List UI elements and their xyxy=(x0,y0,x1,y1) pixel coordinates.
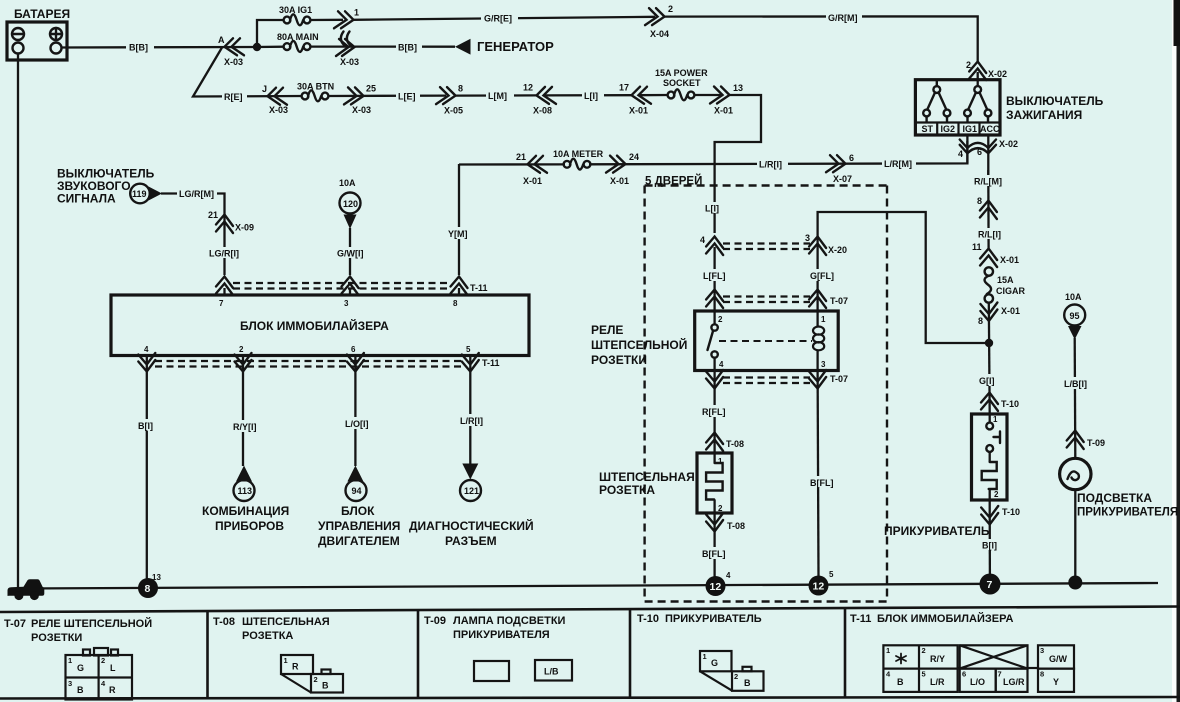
svg-text:ПРИБОРОВ: ПРИБОРОВ xyxy=(215,519,284,533)
label Y[M] xyxy=(446,227,474,239)
svg-text:8: 8 xyxy=(145,583,151,595)
wire junction to fuse MAIN xyxy=(257,46,284,49)
svg-text:15A POWER: 15A POWER xyxy=(655,68,708,78)
svg-text:X-01: X-01 xyxy=(523,176,542,186)
generator ГЕНЕРАТОР arrow xyxy=(455,39,554,55)
fuse node 10A / 120 xyxy=(339,178,361,229)
cigarette lighter ПРИКУРИВАТЕЛЬ xyxy=(884,414,1007,538)
connector T-07 top chevron left xyxy=(706,290,723,309)
label R/L[I] xyxy=(976,228,1006,240)
svg-text:7: 7 xyxy=(987,579,993,591)
ignition switch ВЫКЛЮЧАТЕЛЬ ЗАЖИГАНИЯ xyxy=(915,80,1103,135)
svg-text:T-09: T-09 xyxy=(424,615,446,627)
svg-text:B[I]: B[I] xyxy=(138,421,153,431)
svg-text:L[I]: L[I] xyxy=(584,91,598,101)
junction dashed pair T-07 top xyxy=(723,296,848,306)
wire L/B[I] lamp feed xyxy=(1074,338,1077,458)
svg-text:ЛАМПА ПОДСВЕТКИ: ЛАМПА ПОДСВЕТКИ xyxy=(453,615,566,627)
svg-text:БЛОК ИММОБИЛАЙЗЕРА: БЛОК ИММОБИЛАЙЗЕРА xyxy=(240,318,389,333)
fuse 30A IG1 xyxy=(279,5,312,25)
label L[I] xyxy=(582,90,604,102)
wire B[I] immobilizer pin 4 to ground xyxy=(146,356,148,581)
svg-text:120: 120 xyxy=(343,199,358,209)
svg-text:X-04: X-04 xyxy=(650,29,669,39)
svg-text:L[FL]: L[FL] xyxy=(703,271,726,281)
svg-text:3: 3 xyxy=(805,233,810,243)
svg-text:L/O[I]: L/O[I] xyxy=(345,419,369,429)
svg-text:R[E]: R[E] xyxy=(224,92,243,102)
connector 11 X-01 xyxy=(972,242,1019,267)
svg-text:1: 1 xyxy=(821,315,826,324)
svg-text:8: 8 xyxy=(453,299,458,308)
relay РЕЛЕ ШТЕПСЕЛЬНОЙ РОЗЕТКИ xyxy=(591,311,838,371)
junction dashed pair T-11 top xyxy=(233,283,488,293)
svg-text:T-07: T-07 xyxy=(830,296,848,306)
svg-text:119: 119 xyxy=(132,189,147,199)
svg-text:X-03: X-03 xyxy=(269,105,288,115)
svg-text:R/L[I]: R/L[I] xyxy=(978,230,1001,240)
wire R/L[M] acc feed xyxy=(987,170,990,248)
svg-text:X-08: X-08 xyxy=(533,106,552,116)
svg-text:ДИАГНОСТИЧЕСКИЙ: ДИАГНОСТИЧЕСКИЙ xyxy=(409,518,534,533)
junction dashed pair T-11 bottom xyxy=(155,358,500,368)
connector 13 X-01 xyxy=(710,83,743,116)
svg-text:1: 1 xyxy=(703,652,707,661)
svg-text:ЗАЖИГАНИЯ: ЗАЖИГАНИЯ xyxy=(1006,108,1082,122)
connector 8 chevron xyxy=(977,196,997,219)
ground line xyxy=(20,583,1158,589)
svg-text:12: 12 xyxy=(813,581,825,593)
label B[FL] right xyxy=(808,476,838,488)
svg-text:L/R[I]: L/R[I] xyxy=(460,416,483,426)
fuse 15A POWER SOCKET xyxy=(655,68,708,100)
svg-text:6: 6 xyxy=(977,147,982,157)
wire L[I] xyxy=(544,94,632,97)
svg-text:УПРАВЛЕНИЯ: УПРАВЛЕНИЯ xyxy=(318,519,400,533)
connector 8 X-01 below fuse xyxy=(978,303,1020,327)
immobilizer unit БЛОК ИММОБИЛАЙЗЕРА xyxy=(111,295,529,356)
lighter contacts and element xyxy=(982,414,1000,513)
connector T-11 pin 3 xyxy=(342,277,359,296)
connector pair X-03 on B[B] wire xyxy=(336,32,359,68)
wire riser junction to IG1 row xyxy=(257,20,284,47)
relay coil xyxy=(813,311,824,371)
wire G[FL] relay coil feed from accessory junction xyxy=(818,212,986,343)
label R/Y[I] xyxy=(231,420,263,432)
fuse 10A METER xyxy=(553,149,604,170)
wire G/R[M] chevron 2 to ignition riser xyxy=(665,16,978,62)
svg-text:J: J xyxy=(262,84,267,94)
svg-text:B[FL]: B[FL] xyxy=(810,478,834,488)
svg-text:113: 113 xyxy=(238,486,253,496)
svg-text:2: 2 xyxy=(668,4,673,14)
svg-text:7: 7 xyxy=(219,299,224,308)
svg-text:ПРИКУРИВАТЕЛЯ: ПРИКУРИВАТЕЛЯ xyxy=(1077,507,1178,519)
legend T-08 connector drawing xyxy=(281,655,343,693)
svg-text:17: 17 xyxy=(619,83,629,93)
svg-text:8: 8 xyxy=(978,316,983,326)
svg-text:L/R[I]: L/R[I] xyxy=(759,160,782,170)
svg-text:4: 4 xyxy=(144,345,149,354)
svg-text:12: 12 xyxy=(523,83,533,93)
svg-text:4: 4 xyxy=(700,235,705,245)
svg-text:B: B xyxy=(77,685,84,695)
connector 2 X-02 xyxy=(966,60,1007,80)
relay internal dashed link xyxy=(719,340,812,342)
connector 1 X-03 xyxy=(334,8,359,29)
svg-text:5: 5 xyxy=(829,570,834,579)
fuse node 10A / 95 xyxy=(1064,292,1085,340)
svg-text:A: A xyxy=(218,35,225,45)
svg-text:B: B xyxy=(897,677,904,687)
svg-text:L/B: L/B xyxy=(544,667,559,677)
connector T-07 bottom chevron left xyxy=(706,370,723,389)
ignition contact tree left xyxy=(923,80,950,122)
label L[M] xyxy=(486,90,514,102)
svg-text:ШТЕПСЕЛЬНОЙ: ШТЕПСЕЛЬНОЙ xyxy=(591,337,687,352)
label L/R[I] xyxy=(458,414,488,426)
svg-text:6: 6 xyxy=(849,153,854,163)
svg-text:Y: Y xyxy=(1053,677,1059,687)
svg-text:12: 12 xyxy=(710,581,722,593)
pin 5 xyxy=(462,353,479,372)
wire power socket feed to relay column xyxy=(715,95,761,233)
connector 6 X-07 xyxy=(826,153,854,184)
svg-text:R/Y: R/Y xyxy=(930,654,945,664)
svg-text:ST: ST xyxy=(922,124,934,134)
svg-text:T-07: T-07 xyxy=(4,618,26,630)
svg-text:X-02: X-02 xyxy=(999,139,1018,149)
wire Y[M] column xyxy=(458,164,460,275)
svg-text:8: 8 xyxy=(1040,670,1044,679)
wire fuse to chevron 13 xyxy=(694,94,723,96)
svg-text:LG/R[M]: LG/R[M] xyxy=(179,189,214,199)
svg-text:X-03: X-03 xyxy=(352,105,371,115)
power socket ШТЕПСЕЛЬНАЯ РОЗЕТКА xyxy=(599,453,732,513)
connector T-11 pin 8 xyxy=(451,277,468,296)
svg-text:X-01: X-01 xyxy=(714,106,733,116)
svg-text:2: 2 xyxy=(101,656,105,665)
svg-text:РОЗЕТКА: РОЗЕТКА xyxy=(242,630,293,642)
svg-text:10A: 10A xyxy=(339,178,356,188)
svg-text:X-07: X-07 xyxy=(833,174,852,184)
svg-text:G/R[E]: G/R[E] xyxy=(484,14,512,24)
connector T-07 bottom chevron right xyxy=(809,370,826,389)
svg-text:РЕЛЕ: РЕЛЕ xyxy=(591,323,623,337)
pin stubs into immobilizer xyxy=(223,288,225,295)
svg-text:21: 21 xyxy=(516,152,526,162)
svg-text:БАТАРЕЯ: БАТАРЕЯ xyxy=(14,7,70,21)
legend T-07 connector drawing xyxy=(66,648,133,700)
svg-text:13: 13 xyxy=(733,83,743,93)
junction dashed pair X-20 xyxy=(723,244,810,250)
svg-text:G[I]: G[I] xyxy=(979,376,995,386)
label LG/R[I] xyxy=(207,247,243,259)
fuse 80A MAIN xyxy=(277,32,319,52)
svg-text:G/W: G/W xyxy=(1049,654,1068,664)
svg-text:15A: 15A xyxy=(997,275,1014,285)
wire B[B] fuse MAIN to generator xyxy=(310,45,455,47)
wire lamp to ground xyxy=(1074,490,1076,578)
svg-text:ПРИКУРИВАТЕЛЯ: ПРИКУРИВАТЕЛЯ xyxy=(453,629,550,641)
wire meter row Y[M] corner to ignition pin 4 xyxy=(459,163,565,165)
wire fuse IG1 to chevron 1 xyxy=(310,19,343,22)
svg-text:X-03: X-03 xyxy=(224,57,243,67)
svg-text:IG2: IG2 xyxy=(941,124,956,134)
ground node 12 pin 4 xyxy=(706,571,732,596)
label R[FL] xyxy=(700,405,730,417)
label L/R[M] xyxy=(882,158,916,170)
svg-text:ШТЕПСЕЛЬНАЯ: ШТЕПСЕЛЬНАЯ xyxy=(242,616,330,628)
svg-text:6: 6 xyxy=(962,670,966,679)
svg-text:X-01: X-01 xyxy=(629,106,648,116)
svg-text:L[E]: L[E] xyxy=(398,92,416,102)
svg-text:2: 2 xyxy=(239,345,244,354)
svg-text:ШТЕПСЕЛЬНАЯ: ШТЕПСЕЛЬНАЯ xyxy=(599,470,695,484)
svg-text:Y[M]: Y[M] xyxy=(448,229,468,239)
node 121 ДИАГНОСТИЧЕСКИЙ РАЗЪЕМ xyxy=(409,464,534,549)
svg-text:8: 8 xyxy=(458,84,463,94)
svg-text:X-09: X-09 xyxy=(235,223,254,233)
svg-text:B[B]: B[B] xyxy=(129,43,148,53)
label R/L[M] xyxy=(972,175,1005,187)
connector 21 X-09 xyxy=(208,210,254,233)
svg-text:3: 3 xyxy=(68,679,72,688)
svg-text:T-07: T-07 xyxy=(830,374,848,384)
svg-text:10A METER: 10A METER xyxy=(553,149,604,159)
svg-text:95: 95 xyxy=(1070,311,1080,321)
svg-text:3: 3 xyxy=(344,299,349,308)
svg-text:5: 5 xyxy=(922,670,926,679)
socket heating element xyxy=(706,453,723,513)
connector T-07 top chevron right xyxy=(809,290,826,309)
connector T-09 chevron xyxy=(1067,431,1105,450)
svg-text:IG1: IG1 xyxy=(963,124,978,134)
svg-text:R: R xyxy=(109,685,116,695)
svg-text:B: B xyxy=(322,681,329,691)
svg-text:B[FL]: B[FL] xyxy=(702,549,726,559)
wire G/R[E] chevron 1 to chevron 2 xyxy=(354,17,656,20)
legend T-07 РЕЛЕ ШТЕПСЕЛЬНОЙ РОЗЕТКИ xyxy=(4,617,152,644)
wire B[B] battery to junction xyxy=(61,46,257,49)
svg-text:X-03: X-03 xyxy=(340,57,359,67)
legend T-11 connector drawing xyxy=(883,645,1074,692)
svg-text:T-11: T-11 xyxy=(482,358,500,368)
ground car body icon xyxy=(8,579,45,596)
connector T-10 top chevron xyxy=(981,393,1019,412)
svg-text:2: 2 xyxy=(718,504,723,513)
svg-text:4: 4 xyxy=(726,571,731,580)
svg-text:T-10: T-10 xyxy=(637,613,659,625)
svg-text:LG/R[I]: LG/R[I] xyxy=(209,249,239,259)
connector 25 X-03 xyxy=(344,84,376,116)
svg-text:T-10: T-10 xyxy=(1002,507,1020,517)
label B[FL] xyxy=(700,547,730,559)
svg-text:80A MAIN: 80A MAIN xyxy=(277,32,319,42)
svg-text:L/O: L/O xyxy=(970,677,985,687)
svg-text:B[I]: B[I] xyxy=(982,541,997,551)
label B[I] xyxy=(136,419,159,431)
svg-text:11: 11 xyxy=(972,242,982,252)
junction dashed pair T-07 bottom xyxy=(723,374,848,384)
svg-text:3: 3 xyxy=(1040,646,1044,655)
svg-text:ПРИКУРИВАТЕЛЬ: ПРИКУРИВАТЕЛЬ xyxy=(884,524,990,538)
wire G/W[I] xyxy=(349,228,351,275)
label B[I] xyxy=(980,539,1002,551)
svg-text:T-09: T-09 xyxy=(1087,438,1105,448)
node battery junction xyxy=(253,43,261,51)
wire LG/R[M] xyxy=(161,194,225,276)
svg-text:2: 2 xyxy=(314,675,318,684)
svg-text:РЕЛЕ ШТЕПСЕЛЬНОЙ: РЕЛЕ ШТЕПСЕЛЬНОЙ xyxy=(31,617,152,630)
svg-text:КОМБИНАЦИЯ: КОМБИНАЦИЯ xyxy=(202,504,289,518)
svg-text:3: 3 xyxy=(821,360,826,369)
svg-text:РОЗЕТКА: РОЗЕТКА xyxy=(599,483,655,497)
connector 8 X-05 xyxy=(436,84,463,116)
svg-text:8: 8 xyxy=(977,196,982,206)
label L[I] relay column xyxy=(703,202,726,214)
svg-text:7: 7 xyxy=(998,670,1002,679)
svg-text:13: 13 xyxy=(152,573,161,582)
svg-text:X-05: X-05 xyxy=(444,106,463,116)
svg-text:30A IG1: 30A IG1 xyxy=(279,5,312,15)
svg-text:1: 1 xyxy=(993,415,998,424)
label G[FL] xyxy=(808,269,838,281)
svg-text:X-01: X-01 xyxy=(1000,255,1019,265)
svg-text:21: 21 xyxy=(208,210,218,220)
connector 24 X-01 xyxy=(606,152,639,186)
label L[E] xyxy=(396,90,420,102)
svg-text:X-01: X-01 xyxy=(1001,306,1020,316)
ground node 12 pin 5 xyxy=(809,570,835,596)
svg-text:X-02: X-02 xyxy=(988,69,1007,79)
svg-text:1: 1 xyxy=(284,656,288,665)
svg-text:L/R: L/R xyxy=(930,677,945,687)
svg-text:B[B]: B[B] xyxy=(398,43,417,53)
label LG/R[M] xyxy=(177,188,217,200)
svg-text:30A BTN: 30A BTN xyxy=(297,82,334,92)
svg-text:ПРИКУРИВАТЕЛЬ: ПРИКУРИВАТЕЛЬ xyxy=(665,613,762,625)
label G/R[M] xyxy=(826,12,862,24)
svg-text:B: B xyxy=(744,678,751,688)
legend T-11 БЛОК ИММОБИЛАЙЗЕРА xyxy=(850,612,1013,625)
svg-text:L[I]: L[I] xyxy=(705,204,719,214)
wire R[FL] relay pin 4 to socket xyxy=(713,371,715,454)
label G/W[I] xyxy=(335,247,368,259)
svg-text:1: 1 xyxy=(886,646,890,655)
svg-text:R[FL]: R[FL] xyxy=(702,407,726,417)
svg-text:SOCKET: SOCKET xyxy=(663,78,701,88)
svg-text:6: 6 xyxy=(351,345,356,354)
horn switch ВЫКЛЮЧАТЕЛЬ ЗВУКОВОГО СИГНАЛА xyxy=(57,167,155,206)
legend T-10 connector drawing xyxy=(700,651,764,691)
label L/O[I] xyxy=(343,417,373,429)
svg-text:БЛОК ИММОБИЛАЙЗЕРА: БЛОК ИММОБИЛАЙЗЕРА xyxy=(877,612,1013,625)
svg-text:T-08: T-08 xyxy=(727,521,745,531)
svg-text:ГЕНЕРАТОР: ГЕНЕРАТОР xyxy=(477,39,554,54)
legend T-09 lamp boxes xyxy=(474,660,572,681)
svg-text:ВЫКЛЮЧАТЕЛЬ: ВЫКЛЮЧАТЕЛЬ xyxy=(1006,94,1104,108)
svg-text:94: 94 xyxy=(352,486,362,496)
wire B[FL] socket to ground xyxy=(713,513,715,580)
svg-text:2: 2 xyxy=(966,60,971,70)
label B[B] xyxy=(126,41,154,53)
svg-text:LG/R: LG/R xyxy=(1003,677,1025,687)
connector T-11 bottom chevrons pin 4 xyxy=(138,353,155,372)
connector 4 X-20 chevron xyxy=(700,235,723,255)
wire into ignition switch xyxy=(977,72,979,86)
label L/R[I] xyxy=(757,158,788,170)
label B[B] xyxy=(396,41,422,53)
connector T-11 top row chevrons pin 7 xyxy=(216,277,233,296)
connector A X-03 xyxy=(218,35,244,67)
svg-text:10A: 10A xyxy=(1065,292,1082,302)
svg-text:T-08: T-08 xyxy=(726,439,744,449)
svg-text:G/W[I]: G/W[I] xyxy=(337,249,364,259)
ignition contact tree right xyxy=(964,86,991,122)
connector T-10 bottom chevron xyxy=(981,506,1020,525)
svg-text:X-20: X-20 xyxy=(828,245,847,255)
pin 6 xyxy=(347,353,364,372)
svg-text:24: 24 xyxy=(629,152,639,162)
connector pair X-02 pins 4 and 6 xyxy=(958,135,1018,176)
label L[FL] xyxy=(701,269,729,281)
svg-text:R: R xyxy=(292,662,299,672)
svg-text:121: 121 xyxy=(464,486,479,496)
connector J X-03 xyxy=(262,84,288,115)
legend T-10 ПРИКУРИВАТЕЛЬ xyxy=(637,613,762,625)
fuse 15A CIGAR xyxy=(985,267,1026,302)
svg-text:РАЗЪЕМ: РАЗЪЕМ xyxy=(445,534,497,548)
svg-text:2: 2 xyxy=(922,646,926,655)
legend table frame xyxy=(0,607,1180,699)
wire B[I] lighter to ground xyxy=(989,513,992,578)
svg-text:L[M]: L[M] xyxy=(488,91,507,101)
wire L[M] xyxy=(456,94,537,96)
label L/B[I] xyxy=(1063,377,1091,389)
connector 3 X-20 chevron xyxy=(805,233,847,255)
wire L[I] to power socket fuse xyxy=(638,94,668,96)
wire L[E] xyxy=(328,94,446,97)
wire diagonal to R[E] row xyxy=(193,48,302,97)
connector 21 X-01 xyxy=(516,152,547,186)
svg-text:L/R[M]: L/R[M] xyxy=(884,159,912,169)
svg-text:25: 25 xyxy=(366,84,376,94)
svg-text:5: 5 xyxy=(466,345,471,354)
node 94 БЛОК УПРАВЛЕНИЯ ДВИГАТЕЛЕМ xyxy=(318,466,400,549)
svg-text:РОЗЕТКИ: РОЗЕТКИ xyxy=(31,632,82,644)
ground node 7 xyxy=(980,574,1001,595)
ground node 8 pin 13 xyxy=(138,573,161,598)
label G[I] xyxy=(977,374,1003,386)
wire cigar fuse to lighter xyxy=(988,303,991,415)
node accessory junction xyxy=(985,339,993,347)
svg-text:2: 2 xyxy=(718,315,723,324)
wire B[FL] relay pin 3 to ground xyxy=(816,371,819,577)
wire battery negative to ground xyxy=(17,54,19,592)
svg-text:R/L[M]: R/L[M] xyxy=(974,177,1002,187)
node 119 circle xyxy=(130,184,162,204)
connector 2 X-04 xyxy=(645,4,673,39)
svg-text:T-11: T-11 xyxy=(470,283,488,293)
svg-text:1: 1 xyxy=(354,8,359,18)
svg-text:L/B[I]: L/B[I] xyxy=(1064,379,1087,389)
pin 2 xyxy=(235,353,252,372)
ground node lamp xyxy=(1068,576,1082,590)
connector T-08 top chevron xyxy=(706,433,744,452)
svg-text:ACC: ACC xyxy=(980,124,1000,134)
label R[E] xyxy=(222,91,247,103)
